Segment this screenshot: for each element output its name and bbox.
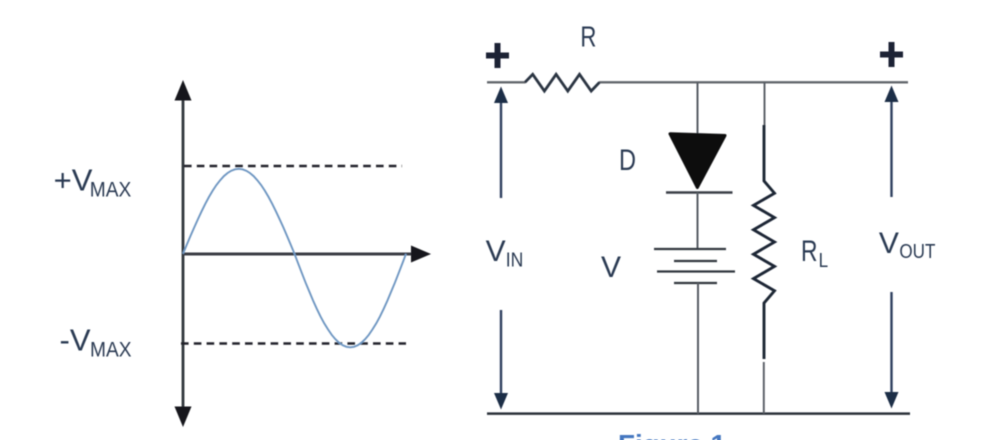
battery V (two cells) (654, 249, 735, 283)
svg-text:OUT: OUT (899, 241, 935, 263)
label Vout (879, 227, 936, 263)
label RL (801, 235, 828, 272)
svg-text:V: V (879, 227, 899, 260)
axis vertical (waveform graph) (175, 80, 192, 427)
sine waveform Vin (183, 169, 406, 347)
dashed line +Vmax level (184, 165, 402, 168)
wire diode to battery (697, 193, 699, 250)
svg-text:-V: -V (60, 323, 91, 358)
svg-text:V: V (601, 251, 621, 284)
svg-text:D: D (619, 144, 636, 177)
svg-text:L: L (819, 250, 829, 272)
wire RL branch upper (764, 82, 766, 126)
svg-text:MAX: MAX (90, 338, 132, 361)
wire top left (Vin node to resistor R) (487, 81, 526, 83)
wire diode branch upper (697, 82, 699, 136)
plus sign Vout polarity (880, 42, 903, 67)
wire top right (resistor R to Vout node) (599, 81, 908, 83)
wire bottom (common rail) (487, 412, 910, 415)
resistor R (series, zigzag) (525, 74, 600, 91)
svg-text:R: R (580, 22, 596, 54)
wire battery to bottom rail (697, 283, 699, 414)
diode D (anode triangle + cathode bar) (666, 134, 733, 193)
arrow Vin (upper segment) (494, 87, 508, 199)
svg-text:+V: +V (54, 162, 93, 197)
svg-text:V: V (486, 235, 506, 268)
label -Vmax (60, 323, 132, 362)
arrow Vin (lower segment) (494, 310, 508, 410)
wire RL branch lower (763, 362, 765, 414)
svg-text:R: R (801, 235, 818, 268)
svg-text:IN: IN (506, 250, 524, 272)
dashed line -Vmax level (181, 342, 406, 345)
resistor RL (load, vertical zigzag) (754, 125, 775, 359)
label Vin (486, 235, 524, 272)
label +Vmax (54, 162, 132, 201)
axis horizontal (waveform graph) (183, 246, 431, 263)
arrow Vout (upper segment) (885, 86, 899, 198)
svg-text:MAX: MAX (90, 178, 132, 201)
svg-text:Figure 1: Figure 1 (618, 429, 726, 440)
arrow Vout (lower segment) (885, 292, 899, 409)
plus sign Vin polarity (486, 43, 509, 68)
